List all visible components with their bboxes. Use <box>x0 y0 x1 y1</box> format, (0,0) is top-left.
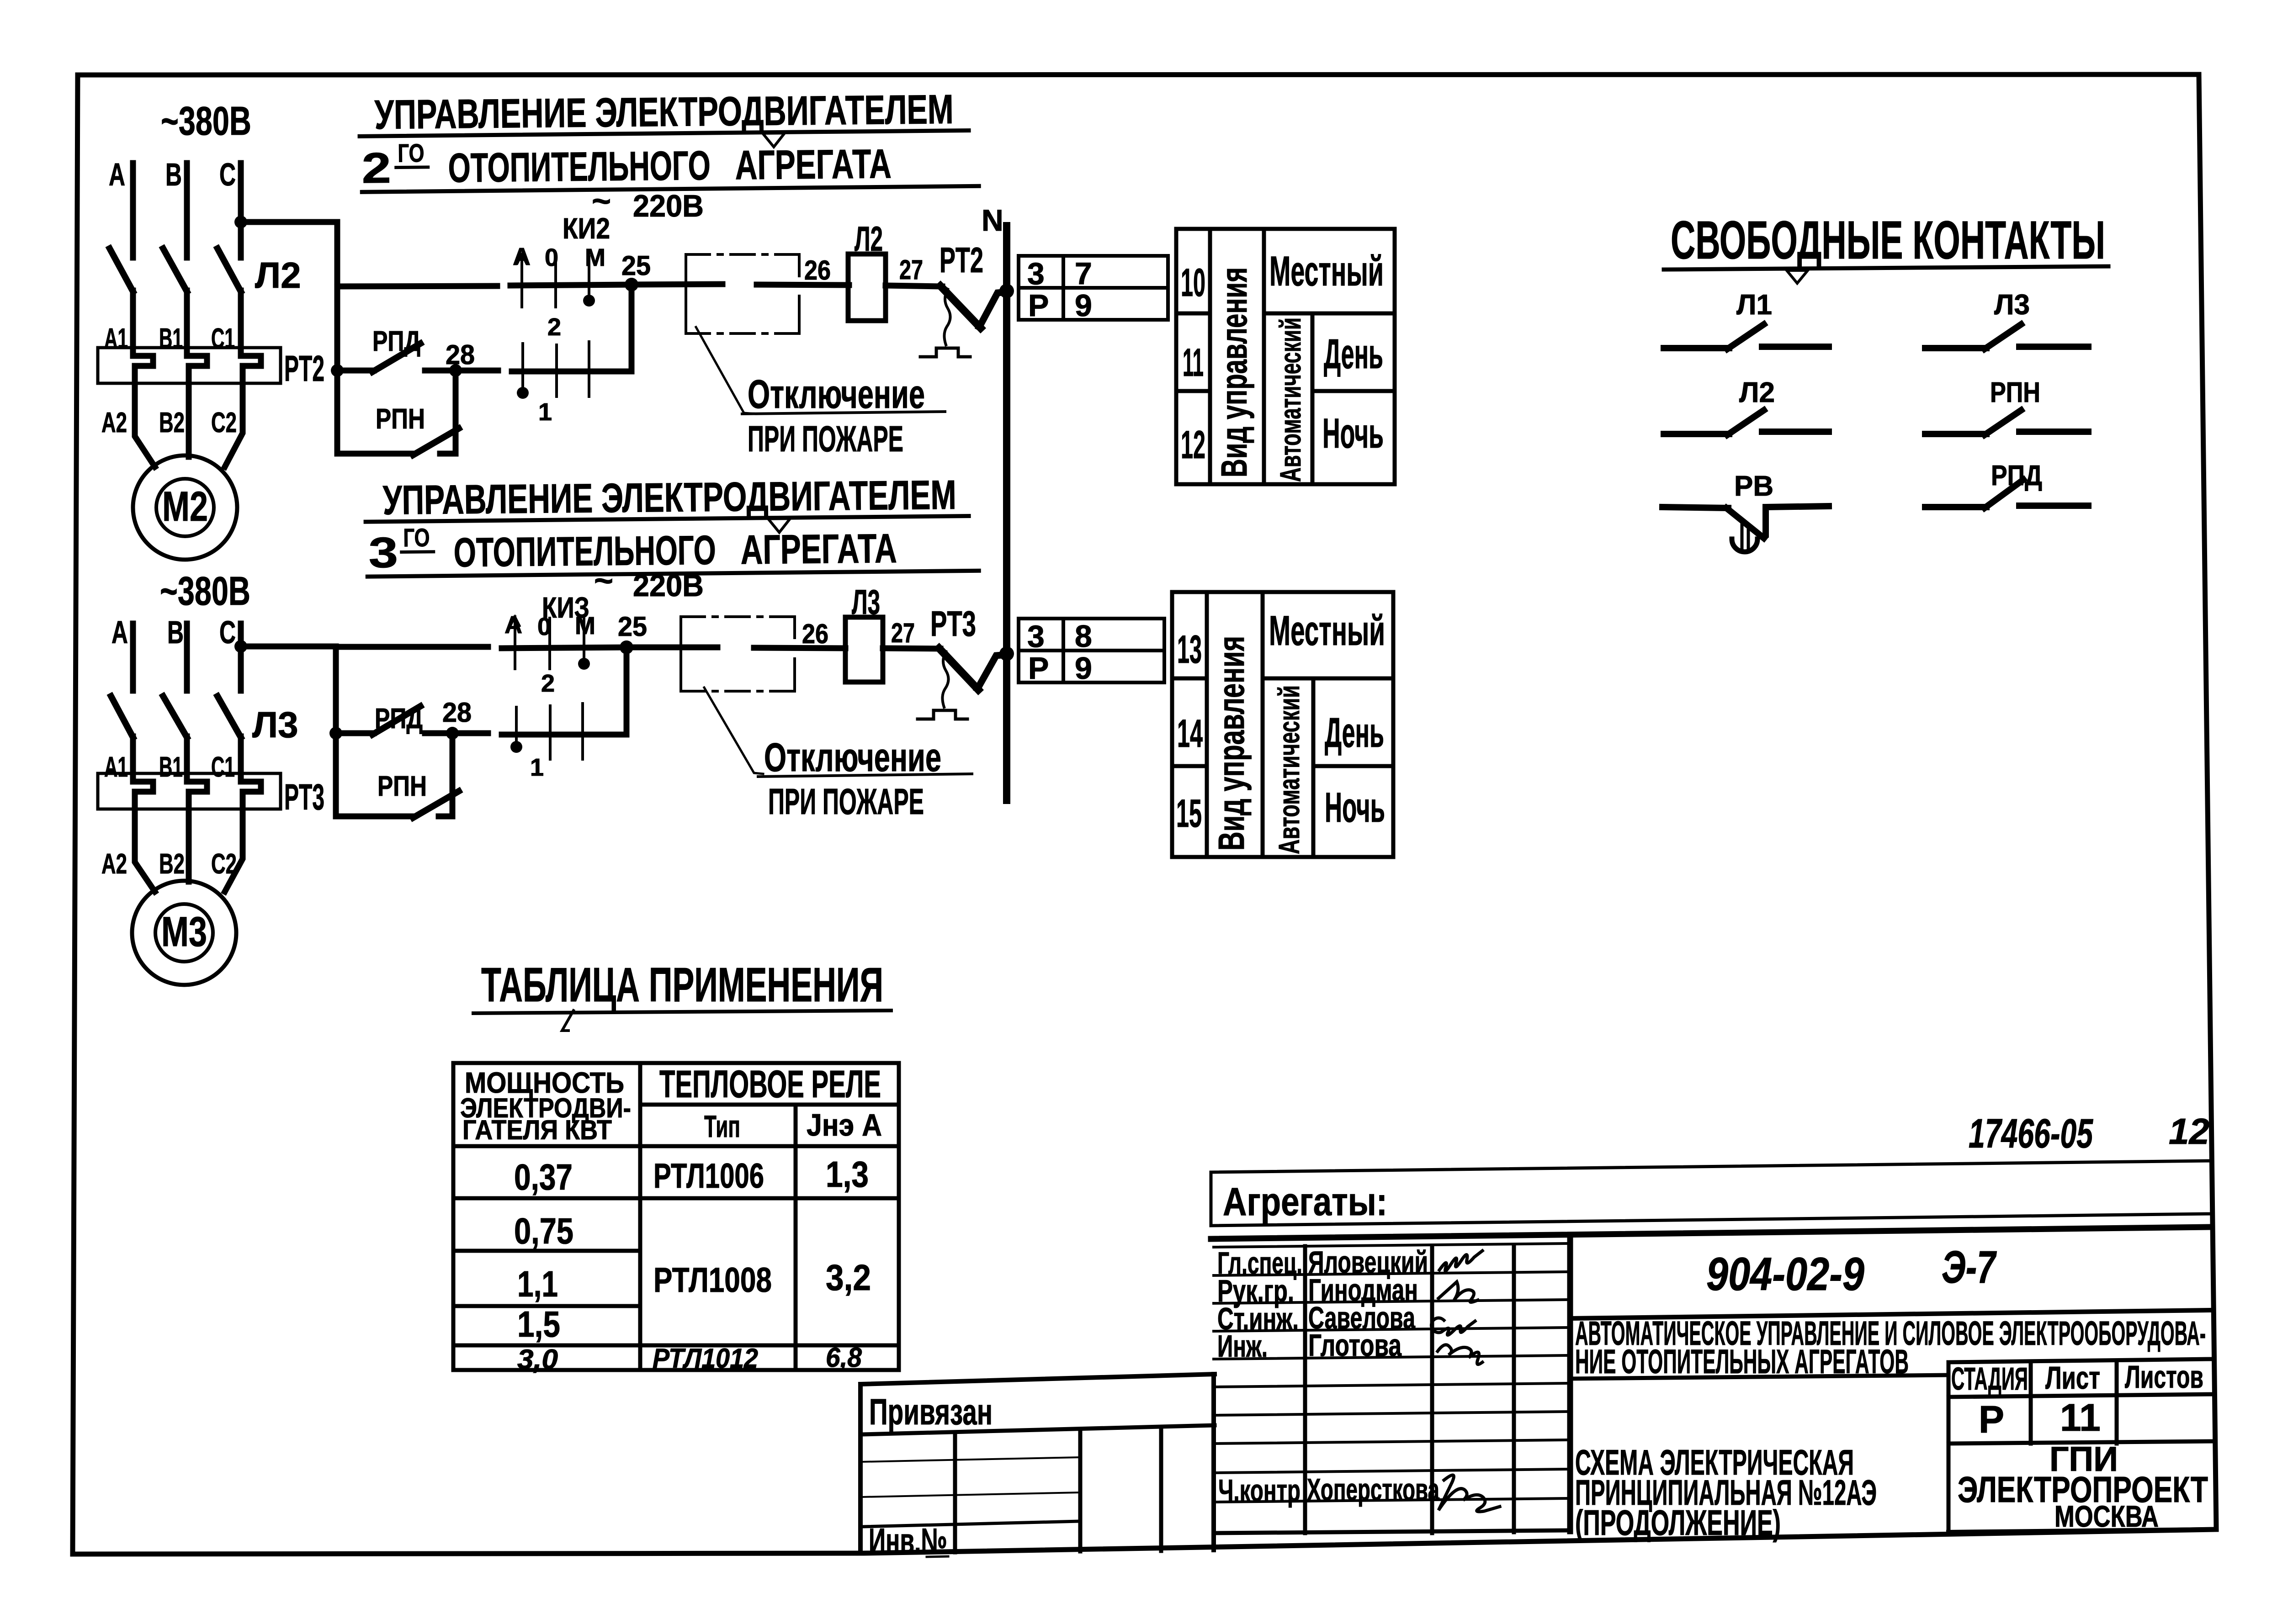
svg-text:Jнэ А: Jнэ А <box>807 1108 882 1143</box>
svg-text:B1: B1 <box>159 751 183 783</box>
signature 2 <box>1439 1282 1478 1302</box>
svg-text:C: C <box>219 157 236 192</box>
svg-text:25: 25 <box>621 250 651 281</box>
svg-text:3: 3 <box>368 529 398 577</box>
wire RPD branch left <box>336 730 374 736</box>
thermal contact RT2 blade <box>940 286 981 328</box>
switch KI2 row1 tick A <box>520 254 523 307</box>
svg-text:7: 7 <box>1075 256 1092 291</box>
contact RV delay anchor <box>1741 524 1744 551</box>
mode table (13-15) frame <box>1172 592 1393 857</box>
wire coil to RT3 contact <box>883 648 940 649</box>
junction dot RT3-N <box>999 646 1014 661</box>
contact RPD blade <box>372 344 420 372</box>
switch blade phase A <box>111 696 133 737</box>
contact RPD <box>1925 480 2088 508</box>
svg-text:Листов: Листов <box>2125 1359 2203 1395</box>
switch blade phase C <box>218 249 241 291</box>
wire 25 to fire contact <box>626 645 717 651</box>
signature table rows <box>1214 1243 1570 1502</box>
junction dot 28 <box>446 727 459 740</box>
switch KI3 row1 tick A <box>514 617 516 669</box>
title block main left edge <box>1567 1237 1573 1531</box>
svg-text:Р: Р <box>1979 1398 2004 1441</box>
wire phase C upper <box>238 163 244 258</box>
contact RV (time-delay) <box>1662 506 1829 538</box>
svg-text:Ночь: Ночь <box>1322 410 1384 457</box>
svg-text:РПН: РПН <box>377 771 427 802</box>
switch KI2 row2 tick M <box>588 342 590 397</box>
svg-text:12: 12 <box>1181 423 1205 467</box>
switch KI2 row2 tick A <box>521 344 524 394</box>
svg-text:0,75: 0,75 <box>514 1211 573 1251</box>
svg-text:Инж.: Инж. <box>1217 1329 1268 1364</box>
thermal contact RT3 blade <box>939 648 978 690</box>
title line 1: УПРАВЛЕНИЕ ЭЛЕКТРОДВИГАТЕЛЕМ <box>359 86 979 192</box>
svg-text:~: ~ <box>594 563 613 599</box>
svg-text:9: 9 <box>1075 651 1092 686</box>
svg-text:N: N <box>982 203 1003 237</box>
svg-text:904-02-9: 904-02-9 <box>1706 1248 1864 1300</box>
title underline <box>1664 266 2108 270</box>
svg-text:26: 26 <box>804 255 831 286</box>
wire phase B middle <box>184 291 190 350</box>
wire RPN branch left <box>336 814 414 820</box>
wire phase B to motor <box>186 386 192 457</box>
doc code cell bottom line <box>1570 1310 2212 1318</box>
svg-text:РТЛ1008: РТЛ1008 <box>653 1261 772 1300</box>
signature 5 <box>1439 1475 1500 1512</box>
svg-text:1,5: 1,5 <box>517 1304 560 1344</box>
wire RPN branch right + up to 28 <box>440 370 456 454</box>
switch blade phase B <box>163 696 187 737</box>
title line 1 (unit 3): УПРАВЛЕНИЕ ЭЛЕКТРОДВИГАТЕЛЕМ <box>365 472 979 577</box>
signature 4 <box>1438 1345 1482 1365</box>
wire RPD branch right <box>425 730 488 736</box>
wire KI2 right angle down <box>512 285 632 371</box>
svg-text:(ПРОДОЛЖЕНИЕ): (ПРОДОЛЖЕНИЕ) <box>1575 1502 1781 1543</box>
svg-text:A: A <box>109 157 125 192</box>
svg-text:A1: A1 <box>104 751 128 783</box>
wire phase C middle <box>238 291 244 350</box>
signature 1 <box>1439 1251 1482 1271</box>
revision tick <box>562 1010 573 1031</box>
svg-text:3: 3 <box>1027 256 1045 291</box>
leader line fire note <box>704 688 763 774</box>
svg-text:Л2: Л2 <box>255 255 301 296</box>
svg-text:Э-7: Э-7 <box>1942 1242 1997 1293</box>
svg-text:Местный: Местный <box>1269 248 1384 295</box>
thermal contact RT2 actuator squiggle <box>944 289 950 345</box>
motor M3 inner circle <box>155 904 213 962</box>
svg-text:3,2: 3,2 <box>826 1257 871 1298</box>
switch KI3 row2 tick M <box>581 704 584 759</box>
junction dot on phase C <box>234 216 247 228</box>
svg-text:27: 27 <box>891 618 915 648</box>
wire C junction to control riser <box>241 219 337 225</box>
svg-text:ТЕПЛОВОЕ РЕЛЕ: ТЕПЛОВОЕ РЕЛЕ <box>659 1063 881 1106</box>
org box bottom <box>1948 1529 2212 1532</box>
wire control riser vertical <box>334 222 340 454</box>
svg-text:Отключение: Отключение <box>748 371 925 417</box>
svg-text:АГРЕГАТА: АГРЕГАТА <box>735 141 892 188</box>
switch KI2 row1 bar <box>510 285 632 286</box>
coil L3 <box>845 617 883 682</box>
svg-text:C1: C1 <box>211 323 235 354</box>
title block top heavy line <box>1211 1227 2212 1239</box>
svg-text:ПРИ ПОЖАРЕ: ПРИ ПОЖАРЕ <box>768 781 924 822</box>
Агрегаты header box <box>1211 1161 2212 1226</box>
svg-text:6,8: 6,8 <box>826 1342 862 1373</box>
wire phase B upper <box>184 624 190 691</box>
svg-text:B: B <box>167 614 184 650</box>
svg-text:A1: A1 <box>104 323 128 354</box>
svg-text:Автоматический: Автоматический <box>1273 685 1306 854</box>
wire phase A middle <box>130 736 136 776</box>
svg-text:РПН: РПН <box>1990 377 2040 408</box>
junction dot 25 <box>620 640 633 654</box>
svg-text:ОТОПИТЕЛЬНОГО: ОТОПИТЕЛЬНОГО <box>448 143 711 191</box>
terminal box 3-8 / R-9 <box>1019 619 1164 682</box>
motor M2 inner circle <box>156 479 214 536</box>
contact RPN <box>1925 410 2088 435</box>
switch KI3 row1 dot M <box>578 658 590 670</box>
svg-text:10: 10 <box>1181 261 1205 305</box>
motor M3 outer circle <box>132 881 236 985</box>
terminal box 3-7 / R-9 <box>1019 256 1168 320</box>
wire fire contact to coil <box>754 648 845 648</box>
project title cell bottom line <box>1570 1375 1948 1379</box>
svg-text:Отключение: Отключение <box>764 735 941 780</box>
svg-text:Привязан: Привязан <box>869 1391 993 1432</box>
wire KI3 right angle down <box>502 647 626 735</box>
wire control riser vertical <box>333 646 339 816</box>
privyazan block left edge <box>858 1384 863 1553</box>
wire RPD branch right <box>425 368 498 374</box>
svg-text:2: 2 <box>541 670 555 697</box>
wire RPD branch left <box>337 368 374 374</box>
wire C junction to control riser <box>241 644 336 650</box>
switch KI2 row2 tick 0 <box>555 345 558 397</box>
svg-text:PT3: PT3 <box>930 603 976 644</box>
svg-text:C: C <box>219 614 236 650</box>
mode table (10-12) frame <box>1176 229 1395 484</box>
svg-text:Лист: Лист <box>2045 1360 2100 1396</box>
wire phase B middle <box>184 736 190 776</box>
svg-text:Р: Р <box>1028 288 1049 323</box>
svg-text:Л1: Л1 <box>1736 289 1772 321</box>
svg-text:Л3: Л3 <box>252 704 298 745</box>
svg-text:25: 25 <box>618 611 647 642</box>
svg-text:PT2: PT2 <box>940 240 983 280</box>
svg-text:ГО: ГО <box>398 138 425 168</box>
wire phase A middle <box>130 291 136 350</box>
contact RPN blade <box>413 428 459 455</box>
svg-text:Местный: Местный <box>1269 608 1385 654</box>
svg-text:КИ2: КИ2 <box>563 212 610 245</box>
switch KI3 row1 tick M <box>583 619 585 665</box>
svg-text:Л2: Л2 <box>1739 377 1775 408</box>
svg-text:28: 28 <box>446 339 475 370</box>
switch KI2 row2 dot A <box>517 387 529 399</box>
svg-text:1,1: 1,1 <box>517 1264 558 1304</box>
svg-text:A: A <box>111 614 128 650</box>
privyazan column lines <box>953 1434 957 1552</box>
svg-text:26: 26 <box>802 619 828 649</box>
wire phase C upper <box>238 624 244 691</box>
svg-text:Тип: Тип <box>704 1109 740 1144</box>
svg-text:PT3: PT3 <box>284 777 324 817</box>
contact L3 <box>1925 324 2088 349</box>
fire disconnect function box <box>686 254 799 333</box>
svg-text:A2: A2 <box>101 848 127 880</box>
svg-text:РТЛ1012: РТЛ1012 <box>653 1343 758 1374</box>
contact RPN blade <box>413 791 459 818</box>
switch KI3 row1 tick 0 <box>548 618 551 669</box>
svg-text:11: 11 <box>1183 341 1204 385</box>
svg-text:День: День <box>1324 331 1383 377</box>
svg-text:ТАБЛИЦА ПРИМЕНЕНИЯ: ТАБЛИЦА ПРИМЕНЕНИЯ <box>481 958 883 1012</box>
svg-text:A2: A2 <box>101 407 127 439</box>
wire phase A upper <box>130 624 136 691</box>
thermal heater element phase B <box>187 348 207 388</box>
thermal heater element phase C <box>241 773 261 814</box>
svg-text:Агрегаты:: Агрегаты: <box>1223 1180 1387 1224</box>
wire RPN branch right + up to 28 <box>439 733 452 816</box>
svg-text:~380B: ~380B <box>161 98 251 143</box>
signature table bottom <box>1214 1530 1570 1533</box>
note underline <box>742 412 945 414</box>
svg-text:PT2: PT2 <box>284 348 324 389</box>
switch KI3 row2 tick 0 <box>549 706 552 759</box>
svg-text:РПН: РПН <box>376 403 425 435</box>
revision triangle under Д <box>1787 270 1808 283</box>
junction dot 28 <box>449 364 462 377</box>
switch blade phase A <box>110 249 133 291</box>
svg-text:12: 12 <box>2169 1111 2209 1152</box>
svg-text:РПД: РПД <box>372 326 420 357</box>
svg-text:Вид управления: Вид управления <box>1211 636 1252 851</box>
svg-text:B2: B2 <box>159 848 185 880</box>
svg-text:11: 11 <box>2060 1396 2101 1439</box>
svg-text:15: 15 <box>1176 792 1202 836</box>
svg-text:Инв.№: Инв.№ <box>869 1521 947 1561</box>
switch KI3 row2 dot A <box>510 741 522 753</box>
wire 25 to fire contact <box>632 284 722 285</box>
thermal heater element phase A <box>133 348 153 388</box>
wire phase B upper <box>184 163 190 258</box>
svg-text:2: 2 <box>547 313 561 341</box>
junction dot 25 <box>625 278 638 291</box>
svg-text:C1: C1 <box>211 751 235 783</box>
svg-text:9: 9 <box>1075 288 1092 323</box>
thermal heater element phase B <box>187 773 207 814</box>
svg-text:B: B <box>165 157 182 192</box>
junction dot on phase C <box>234 640 247 653</box>
svg-text:17466-05: 17466-05 <box>1969 1111 2093 1157</box>
svg-text:РВ: РВ <box>1734 471 1773 502</box>
thermal relay RT3 box <box>98 773 281 809</box>
svg-text:1,3: 1,3 <box>826 1154 869 1195</box>
svg-text:1: 1 <box>538 398 552 426</box>
wire control line from riser <box>337 286 497 286</box>
revision triangle under Д <box>768 518 790 532</box>
wire phase C to motor <box>225 386 243 467</box>
svg-text:Глотова: Глотова <box>1308 1328 1402 1363</box>
wire phase C middle <box>238 736 244 776</box>
svg-text:1: 1 <box>530 754 544 781</box>
svg-text:2: 2 <box>361 144 391 192</box>
switch KI3 row2 tick A <box>515 707 518 748</box>
stage mini table <box>1948 1359 2212 1444</box>
privyazan block top edge <box>860 1374 1215 1384</box>
switch KI2 row1 tick M <box>588 257 590 302</box>
wire phase C to motor <box>225 812 243 892</box>
motor M2 outer circle <box>133 455 237 560</box>
application table frame <box>453 1063 899 1370</box>
svg-text:Автоматический: Автоматический <box>1274 317 1307 482</box>
wire RPN branch left <box>337 451 414 457</box>
svg-text:~380B: ~380B <box>160 568 250 614</box>
junction dot RPD branch <box>331 364 344 377</box>
switch blade phase B <box>163 249 187 291</box>
thermal heater element phase C <box>241 348 261 388</box>
svg-text:Л3: Л3 <box>1994 289 2030 321</box>
svg-text:220B: 220B <box>633 189 704 223</box>
wire RT2 blade to N <box>979 292 1008 327</box>
svg-text:220B: 220B <box>633 568 704 603</box>
svg-text:C2: C2 <box>211 407 237 439</box>
svg-text:14: 14 <box>1177 712 1203 756</box>
thermal release symbol <box>920 348 970 357</box>
svg-text:Вид управления: Вид управления <box>1214 267 1254 477</box>
wire phase A to motor <box>135 812 155 892</box>
switch blade phase C <box>218 696 241 737</box>
svg-text:28: 28 <box>442 697 472 728</box>
leader line fire note <box>696 327 756 414</box>
privyazan divider <box>861 1425 1215 1434</box>
coil L2 <box>848 254 886 321</box>
title underline <box>473 1010 891 1013</box>
svg-text:Ч.контр: Ч.контр <box>1218 1473 1301 1508</box>
junction dot RPD branch <box>329 727 342 740</box>
thermal heater element phase A <box>133 773 153 814</box>
switch KI3 row1 bar <box>502 647 626 648</box>
svg-text:АГРЕГАТА: АГРЕГАТА <box>740 526 897 573</box>
contact L1 <box>1664 324 1829 349</box>
svg-text:Р: Р <box>1028 651 1049 686</box>
thermal relay RT2 box <box>98 348 281 383</box>
svg-text:СВОБОДНЫЕ КОНТАКТЫ: СВОБОДНЫЕ КОНТАКТЫ <box>1671 210 2105 270</box>
svg-text:ГАТЕЛЯ КВТ: ГАТЕЛЯ КВТ <box>462 1115 612 1145</box>
wire RT3 blade to N <box>977 655 1008 689</box>
svg-text:0,37: 0,37 <box>514 1157 573 1197</box>
svg-text:ГО: ГО <box>403 523 430 552</box>
svg-text:СТАДИЯ: СТАДИЯ <box>1951 1361 2028 1397</box>
revision triangle under Д <box>763 133 785 147</box>
svg-text:M3: M3 <box>161 909 207 955</box>
thermal contact RT3 actuator squiggle <box>942 651 948 707</box>
switch KI2 row1 dot M <box>583 295 595 307</box>
wire phase B to motor <box>186 812 192 882</box>
svg-text:B2: B2 <box>159 407 185 439</box>
svg-text:27: 27 <box>899 254 923 285</box>
svg-text:РТЛ1006: РТЛ1006 <box>653 1157 764 1196</box>
fire disconnect function box <box>681 617 795 691</box>
svg-text:3: 3 <box>1027 619 1045 654</box>
svg-text:3,0: 3,0 <box>517 1344 558 1375</box>
switch KI2 row1 tick 0 <box>554 256 557 307</box>
wire phase A upper <box>130 163 136 258</box>
signature 3 <box>1431 1318 1475 1335</box>
contact L2 <box>1664 410 1829 435</box>
svg-text:B1: B1 <box>159 323 183 354</box>
wire fire contact to coil <box>757 285 849 285</box>
wire coil to RT2 contact <box>886 286 942 286</box>
org box left edge <box>1947 1375 1951 1531</box>
svg-text:Хоперсткова: Хоперсткова <box>1307 1472 1440 1507</box>
svg-text:ПРИ ПОЖАРЕ: ПРИ ПОЖАРЕ <box>748 418 903 459</box>
contact RPD blade <box>372 706 420 735</box>
junction dot RT2-N <box>999 284 1014 298</box>
signature table columns <box>1211 1374 1216 1550</box>
thermal release symbol <box>918 710 967 719</box>
wire control line from riser <box>336 644 488 650</box>
svg-text:Ночь: Ночь <box>1325 784 1385 831</box>
wire N line vertical <box>1003 226 1010 800</box>
wire phase A to motor <box>135 386 155 467</box>
svg-text:13: 13 <box>1177 628 1202 672</box>
svg-text:M2: M2 <box>162 483 208 530</box>
svg-text:8: 8 <box>1075 619 1092 654</box>
privyazan thin rows <box>861 1457 1080 1462</box>
note underline <box>758 774 972 777</box>
svg-text:День: День <box>1325 709 1384 756</box>
